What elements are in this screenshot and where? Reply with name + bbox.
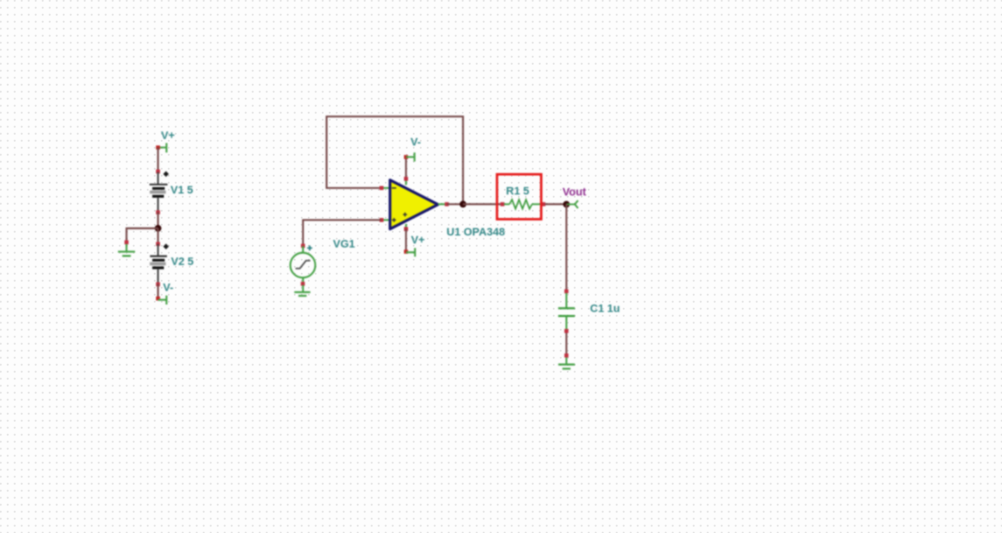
op-amp V+ power pin and terminal: [404, 224, 425, 257]
svg-text:V1 5: V1 5: [171, 185, 194, 197]
capacitor C1: [558, 303, 620, 316]
ground (C1): [558, 365, 575, 369]
resistor R1: [500, 186, 545, 209]
svg-text:V+: V+: [411, 235, 425, 247]
node Vout: [563, 187, 587, 209]
wire battery V1 to junction: [156, 198, 160, 228]
svg-text:C1 1u: C1 1u: [590, 303, 620, 315]
wire V+ terminal to battery V1: [156, 148, 160, 185]
voltage generator VG1: [290, 239, 355, 278]
svg-text:VG1: VG1: [333, 239, 355, 251]
junction node (supply midpoint): [155, 225, 162, 232]
wire Vout to capacitor C1: [564, 204, 568, 308]
wire battery V2 to V- terminal: [156, 269, 160, 298]
battery V1: [150, 185, 194, 198]
svg-text:V+: V+: [161, 130, 175, 142]
ground (battery midpoint): [118, 252, 135, 256]
svg-text:V-: V-: [163, 282, 174, 294]
wire resistor R1 to Vout node: [545, 203, 566, 205]
wire VG1 to non-inverting input: [301, 220, 381, 248]
wire VG1 to ground: [301, 278, 305, 292]
wire junction to battery V2: [156, 228, 160, 256]
feedback wire (output to inverting input): [327, 117, 463, 205]
svg-text:R1 5: R1 5: [506, 186, 529, 198]
junction node (output/feedback): [460, 201, 467, 208]
op-amp output pin wire: [438, 202, 463, 206]
battery V2: [150, 256, 194, 269]
wire output junction to resistor R1: [463, 203, 502, 205]
battery V1 polarity + marker: [163, 171, 169, 177]
svg-text:U1 OPA348: U1 OPA348: [447, 227, 506, 239]
node V- terminal (bottom-left): [156, 282, 174, 305]
svg-text:V-: V-: [411, 137, 422, 149]
wire junction to ground: [125, 228, 159, 251]
op-amp U1 OPA348: [390, 180, 505, 239]
battery V2 polarity + marker: [163, 244, 169, 250]
svg-text:Vout: Vout: [563, 187, 587, 199]
svg-text:V2 5: V2 5: [171, 256, 194, 268]
selection box around R1: [497, 174, 541, 219]
op-amp U1 input pins: [380, 186, 391, 222]
VG1 polarity + marker: [307, 246, 312, 251]
node V+ terminal (top-left): [156, 130, 175, 153]
ground (VG1): [294, 292, 310, 296]
wire capacitor C1 to ground: [564, 316, 568, 365]
op-amp V- power pin and terminal: [404, 137, 421, 186]
